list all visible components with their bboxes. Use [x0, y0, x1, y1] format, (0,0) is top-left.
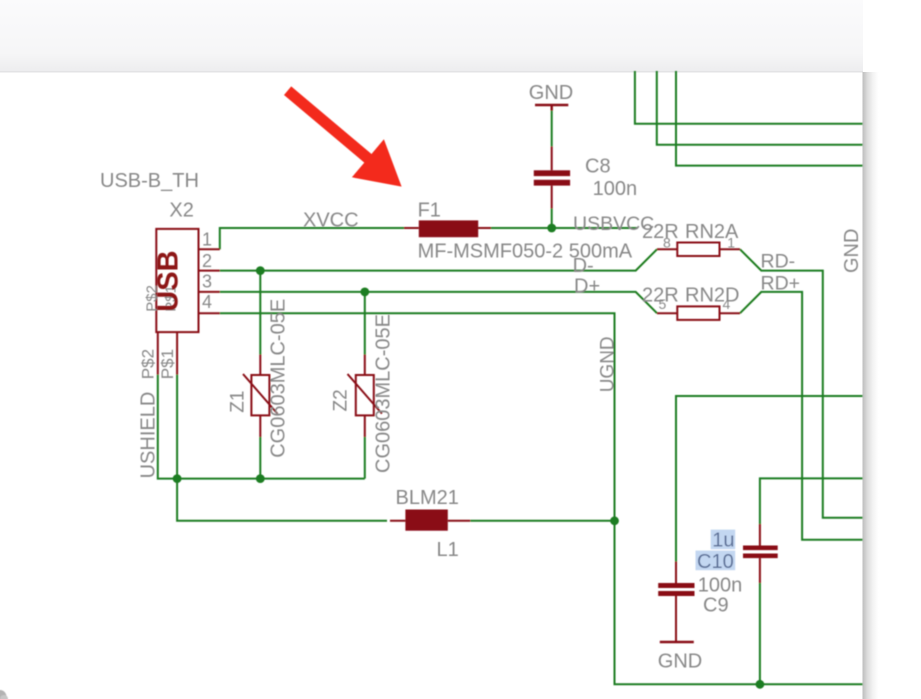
junction Z1 D-: [256, 266, 265, 275]
svg-text:P$2: P$2: [139, 349, 158, 379]
connector X2 pin P$1 stub: [176, 332, 178, 375]
bottom left blob: [0, 690, 8, 699]
resistor RN2D pins: [657, 312, 740, 314]
connector X2 pin 4 stub: [199, 312, 220, 314]
junction L1 UGND: [610, 516, 619, 525]
connector X2 body: [156, 229, 198, 332]
wire GND to C8: [551, 111, 553, 147]
junction USHIELD P$1: [173, 474, 182, 483]
wire shield to L1: [177, 479, 387, 521]
junction Z2 D+: [360, 288, 369, 297]
resistor RN2D body: [677, 306, 719, 320]
fuse F1 body: [419, 220, 478, 237]
svg-text:C8: C8: [585, 156, 611, 178]
connector X2 pin 3 stub: [199, 291, 220, 293]
svg-text:USB-B_TH: USB-B_TH: [100, 170, 199, 192]
svg-text:GND: GND: [529, 82, 573, 104]
svg-text:5: 5: [659, 296, 667, 312]
svg-text:UGND: UGND: [598, 336, 619, 392]
svg-text:RD+: RD+: [761, 273, 801, 295]
wire Z1 top: [259, 271, 261, 355]
wire Z2 top: [364, 292, 366, 355]
svg-text:C9: C9: [703, 595, 729, 617]
svg-text:2: 2: [202, 251, 212, 271]
connector X2 pin P$2 stub: [157, 332, 159, 375]
wire top right 1: [635, 71, 863, 124]
svg-text:CG0603MLC-05E: CG0603MLC-05E: [268, 299, 290, 458]
svg-text:Z2: Z2: [330, 389, 351, 411]
wire UGND horizontal and vertical: [220, 313, 863, 684]
connector X2 pin 1 stub: [199, 248, 220, 250]
wire D-: [220, 249, 657, 270]
svg-text:100n: 100n: [698, 575, 743, 597]
resistor RN2A body: [677, 243, 719, 257]
varistor Z2 body: [348, 355, 382, 438]
gnd symbol bottom: [660, 641, 694, 643]
ferrite bead L1 pins: [390, 520, 470, 522]
wire pin1 drop: [219, 227, 221, 249]
wire top right 2: [657, 71, 863, 145]
wire top right 3: [676, 71, 863, 166]
svg-text:GND: GND: [658, 651, 702, 673]
capacitor C10: [743, 524, 778, 583]
wire USHIELD P$1: [176, 375, 178, 479]
wire C8 to USBVCC junction: [551, 209, 553, 229]
svg-text:8: 8: [663, 235, 671, 251]
svg-text:USHIELD: USHIELD: [138, 392, 160, 479]
ferrite bead L1 body: [405, 510, 447, 531]
svg-text:1: 1: [202, 230, 212, 250]
wire XVCC after F1 to USBVCC: [478, 227, 638, 229]
svg-text:4: 4: [723, 296, 731, 312]
svg-text:1u: 1u: [712, 530, 734, 552]
svg-text:L1: L1: [437, 539, 459, 561]
svg-text:MF-MSMF050-2 500mA: MF-MSMF050-2 500mA: [418, 241, 633, 263]
svg-text:22R: 22R: [642, 221, 679, 243]
svg-text:P$1: P$1: [158, 349, 177, 379]
capacitor C9: [658, 562, 694, 642]
wire XVCC horizontal: [220, 227, 407, 229]
svg-text:XVCC: XVCC: [303, 210, 359, 232]
svg-text:RD-: RD-: [761, 251, 796, 273]
capacitor C10 value highlight: [711, 530, 736, 550]
svg-text:X2: X2: [169, 199, 193, 221]
fuse F1 pins: [404, 227, 491, 229]
wire C9 rail: [676, 396, 863, 562]
svg-text:D+: D+: [574, 276, 600, 298]
varistor Z1 body: [243, 355, 277, 438]
junction C10 bottom rail: [756, 680, 765, 689]
svg-text:C10: C10: [697, 551, 734, 573]
connector X2 pin 2 stub: [199, 270, 220, 272]
svg-text:CG0603MLC-05E: CG0603MLC-05E: [373, 314, 395, 473]
svg-text:RN2D: RN2D: [685, 285, 739, 307]
window top edge: [0, 0, 921, 71]
svg-text:1: 1: [727, 235, 735, 251]
capacitor C10 name highlight: [696, 551, 736, 571]
wire L1 to UGND junction: [470, 520, 614, 522]
junction Z1 shield rail: [256, 474, 265, 483]
svg-text:3: 3: [202, 272, 212, 292]
window right shadow: [863, 72, 879, 699]
svg-text:Z1: Z1: [227, 391, 248, 413]
wire RD+: [740, 292, 863, 540]
junction F1-C8-USBVCC: [547, 224, 556, 233]
wire RD-: [740, 249, 863, 518]
svg-text:BLM21: BLM21: [396, 487, 459, 509]
svg-text:100n: 100n: [593, 178, 638, 200]
svg-text:4: 4: [202, 292, 212, 312]
wire Z2 bottom: [364, 437, 366, 479]
svg-text:USB: USB: [152, 250, 184, 311]
wire C10 bottom: [759, 583, 761, 684]
wire USHIELD P$2: [158, 375, 365, 479]
svg-text:F1: F1: [418, 200, 441, 222]
red annotation arrow: [284, 86, 402, 186]
capacitor C8: [534, 146, 570, 208]
wire D+: [220, 292, 657, 313]
wire C10 top: [760, 478, 863, 524]
wire Z1 bottom: [259, 437, 261, 479]
svg-text:GND: GND: [841, 229, 863, 273]
resistor RN2A pins: [657, 248, 740, 250]
gnd symbol top: [535, 105, 568, 111]
